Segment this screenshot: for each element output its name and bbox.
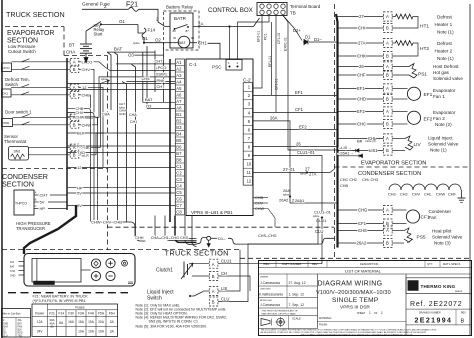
svg-text:SN1: SN1 [14,150,21,154]
svg-text:CH1: CH1 [161,236,169,240]
svg-text:B: B [386,26,389,31]
svg-text:B: B [73,67,76,72]
connector C-1 pin boxes A1-C8 [175,59,184,215]
svg-text:HP: HP [77,185,83,190]
svg-text:F30: F30 [68,311,74,315]
svg-text:splice: splice [133,41,140,45]
wire CHS right [338,230,384,232]
svg-text:1: 1 [369,311,371,315]
svg-text:BT: BT [69,43,75,48]
svg-text:2E21994: 2E21994 [415,318,453,325]
svg-text:BAT: BAT [179,41,187,45]
svg-text:12A: 12A [37,320,44,324]
svg-text:MAT'L SPECS: MAT'L SPECS [443,262,460,266]
svg-text:B: B [386,221,389,226]
svg-text:CHF: CHF [448,193,456,197]
wire DSW1 to connector [22,116,71,118]
svg-text:SECTION: SECTION [2,180,34,189]
svg-text:B: B [212,300,215,305]
transducer pin B wire 5V [34,201,39,203]
svg-text:DK1: DK1 [3,92,9,96]
wire 2 left segment [82,8,129,10]
svg-text:Switch: Switch [147,296,162,302]
vertical wire x126.4 [122,82,126,223]
wire BLK to C-1 [67,132,175,134]
PSC pin2 wire up [238,16,270,60]
wire 12 label [79,86,81,88]
svg-text:2A: 2A [198,21,203,26]
wire CLU from LIS [218,218,318,302]
svg-text:30: 30 [173,36,177,40]
svg-text:12: 12 [247,179,252,184]
svg-text:F4H: F4H [88,311,95,315]
wire CHB label [79,94,81,96]
svg-text:CHS–CHG: CHS–CHG [258,234,277,238]
svg-text:BRAZIL: BRAZIL [455,290,463,293]
svg-text:1. Sep. 12: 1. Sep. 12 [289,293,305,297]
fan CF1 circle [406,210,419,223]
svg-text:CLU: CLU [221,296,229,301]
svg-text:26A: 26A [283,188,290,193]
svg-text:CH1: CH1 [130,120,137,124]
svg-text:EF2: EF2 [299,124,307,129]
wire EF2-01 down [253,16,263,89]
svg-text:5V: 5V [77,191,82,196]
svg-text:CHT: CHT [40,193,49,198]
left bus vertical [66,58,68,210]
wire CHB row2 [67,108,91,222]
title block right grid [406,292,472,294]
svg-text:THIS PRINT SUPERSEDES ANY: THIS PRINT SUPERSEDES ANY OF [262,310,299,313]
relay BAT coil [178,36,190,48]
svg-text:EXR1-01: EXR1-01 [284,37,288,51]
svg-text:CHA: CHA [102,112,110,116]
svg-text:B: B [461,318,465,324]
control box outline [186,59,253,216]
wire 2A [193,18,260,27]
key relay start switch [86,22,101,32]
wire CHB C-2 area [253,197,269,199]
svg-text:B: B [386,73,389,78]
svg-text:B: B [386,148,389,153]
svg-text:CHI: CHI [358,26,365,31]
svg-text:Wire in Cab Box: Wire in Cab Box [2,313,21,316]
splice node O1/O2/O3 [143,38,145,43]
svg-text:CF1: CF1 [358,221,367,226]
svg-text:CHT: CHT [157,84,166,89]
svg-text:A3: A3 [176,73,182,78]
wire BAT top [107,51,155,53]
vertical wire BAT x142.8 [142,52,144,102]
relay switch contact [175,25,188,30]
wires CHH CHA CH1 CHG CHS drops [155,216,197,239]
svg-text:B: B [73,93,76,98]
wire LIS stub [203,290,209,292]
svg-text:CHW: CHW [76,115,85,119]
svg-text:CH: CH [221,271,227,276]
battery pack terminal 2 [106,259,115,268]
heavy bus x170 [169,59,171,222]
svg-text:(5): (5) [50,325,53,329]
svg-text:CHA: CHA [10,270,15,273]
wire RXD to C-1 [67,145,175,147]
diode D1 [303,40,308,45]
thermo king logo box [406,278,472,294]
wire CHT to C-1 [67,88,175,90]
switch LIS symbol [190,292,203,297]
svg-text:J.Carrascosa: J.Carrascosa [260,303,280,307]
svg-text:10: 10 [247,162,252,167]
right heavy bus [336,14,338,248]
svg-text:A1: A1 [176,60,182,65]
svg-text:EF2: EF2 [357,109,365,114]
title block frame and header rows [259,261,472,336]
svg-text:F21: F21 [10,261,15,264]
svg-text:RXD: RXD [18,333,23,335]
wire CHW C-2 area [253,209,276,228]
svg-text:A: A [73,60,76,65]
svg-text:Switch: Switch [5,82,18,87]
svg-text:Note (1): Note (1) [437,56,454,61]
svg-text:CH1: CH1 [198,41,207,46]
wire PNK to C-1 [67,82,175,84]
svg-text:CHK: CHK [357,54,366,59]
PSC pin1 wire up [229,27,231,60]
evaporator section boundary top [5,26,64,28]
projection circle symbol [277,318,285,326]
svg-text:LIV: LIV [414,142,422,148]
svg-text:30A: 30A [18,319,23,322]
svg-text:Defrost: Defrost [437,41,453,46]
condenser/evap divider left [2,168,108,170]
svg-text:A: A [35,191,37,195]
transducer THPCO box [14,190,34,215]
svg-text:24V: 24V [37,330,44,334]
svg-text:D2+: D2+ [293,28,301,33]
svg-text:CHW: CHW [82,122,92,127]
svg-text:Start: Start [94,31,104,36]
svg-text:EF1: EF1 [424,92,433,98]
svg-text:Defrost: Defrost [437,15,453,20]
svg-text:B: B [73,153,76,158]
svg-text:ITEM: ITEM [263,262,270,266]
svg-text:B: B [212,274,215,279]
wire CLU1 clutch [192,263,209,265]
svg-text:A7: A7 [176,99,182,104]
svg-text:CH7: CH7 [119,102,125,106]
truck section bottom boundary left [2,249,240,251]
connector A LPCO [70,59,79,66]
svg-text:CHV: CHV [82,67,91,72]
svg-text:LIST OF MATERIAL: LIST OF MATERIAL [345,269,382,274]
svg-text:CLU1–01: CLU1–01 [297,150,315,155]
svg-text:BLK: BLK [18,330,23,332]
svg-text:9V: 9V [77,203,82,208]
svg-text:Evaporator: Evaporator [433,110,456,115]
svg-text:A: A [386,14,389,19]
svg-text:A6: A6 [176,92,182,97]
svg-text:Thermostat: Thermostat [4,139,27,144]
PSC box [226,60,242,71]
wire EF2 right [338,111,384,113]
svg-text:CHC: CHC [357,122,366,127]
wire DSW1 label [79,116,81,118]
wire D1- to bus [309,41,338,43]
svg-text:Fan: Fan [429,215,437,220]
svg-text:PART NUMBER: PART NUMBER [282,262,301,266]
svg-text:26A1: 26A1 [295,198,305,203]
svg-text:A: A [386,64,389,69]
svg-text:Clutch1: Clutch1 [156,268,173,274]
svg-text:PSC: PSC [212,65,222,70]
fuse F14 symbol [142,28,146,38]
svg-text:CH2: CH2 [400,193,408,197]
svg-text:Battery Relay: Battery Relay [166,5,194,10]
battery down arrow to chassis [84,53,88,62]
wire CHI right [338,27,384,29]
svg-text:CHA: CHA [66,50,75,55]
battery pack lead wires [19,261,25,263]
battery pack terminal 3 [122,260,128,266]
fan EF1 circle [407,87,420,100]
svg-text:26: 26 [359,64,364,69]
svg-text:EF1: EF1 [357,86,365,91]
wire CHC right [338,123,384,125]
svg-text:F21: NEAR BATTERY, IN TRUC: F21: NEAR BATTERY, IN TRUCK [33,295,89,299]
wire CF1 from C-2 pin4 [253,111,338,113]
wire CF1 right [338,223,384,225]
condenser coil loops [389,184,401,190]
svg-text:F3H: F3H [78,311,85,315]
svg-text:D1–: D1– [314,37,322,42]
clutch1 symbol [183,262,185,278]
svg-text:Terminal Board: Terminal Board [290,4,321,9]
svg-text:PNK: PNK [157,78,166,83]
svg-text:CHECKED: CHECKED [260,288,271,290]
svg-text:BATR: BATR [174,16,187,21]
svg-text:CF1-02: CF1-02 [277,33,281,44]
wire O3 top [131,54,164,56]
svg-text:B: B [35,198,37,202]
wire CLU vertical [321,218,323,264]
wire TXD to C-1 [67,152,175,154]
connectors A/B right column [384,12,393,21]
wire 27 right [338,16,384,18]
wire O3 to C-1 [147,108,175,110]
svg-text:CHB: CHB [340,184,348,188]
svg-text:B4: B4 [176,131,182,136]
wire 12 to connector [21,86,70,88]
svg-text:16A: 16A [68,320,75,324]
wire CH1 drop to control box [208,43,221,59]
svg-text:BAT: BAT [10,266,15,269]
svg-text:CHL: CHL [424,193,432,197]
svg-text:27A: 27A [309,171,317,176]
wire 27-01 from C-2 pin11 [253,169,335,172]
wire 12 to C-1 [67,167,175,169]
heater HT2 resistor [392,42,394,44]
svg-text:CHC CH2: CHC CH2 [340,178,357,182]
transducer pin C wire HP [34,208,39,210]
svg-text:Fan 1: Fan 1 [433,94,445,99]
switch LPCO contacts [12,59,30,70]
wire 26A1 stub right [338,155,357,157]
svg-text:CH5: CH5 [142,76,151,81]
control box right dashed boundary [334,4,336,258]
valve PS1 wires [392,66,409,68]
svg-text:BAT: BAT [145,97,153,102]
svg-text:CH7: CH7 [155,59,164,64]
svg-text:GND: GND [119,112,127,116]
sensor SN1 body [9,147,29,161]
svg-text:Fuses: Fuses [75,305,85,309]
svg-text:DRAWING NUMBER: DRAWING NUMBER [419,312,441,315]
svg-text:LIS: LIS [221,286,227,291]
svg-text:EVAPORATOR: EVAPORATOR [7,30,54,37]
svg-text:Heater 2: Heater 2 [435,49,453,54]
valve LIV symbol [405,136,413,150]
svg-text:CHV: CHV [412,193,420,197]
connector A DK1 [70,84,79,91]
svg-text:C3: C3 [176,177,182,182]
wire 26 from C-2 pin8 [253,146,338,148]
switch DK1 body [2,89,12,97]
svg-text:27. Aug. 12: 27. Aug. 12 [289,281,306,285]
svg-text:C5: C5 [176,190,182,195]
svg-text:PS1: PS1 [418,72,427,78]
truck section bottom boundary right [108,226,335,228]
battery relay dashed enclosure [164,11,200,50]
wire CH clutch [192,275,209,277]
wire LIS label [218,250,240,291]
svg-text:Hot gas: Hot gas [433,70,450,75]
wire CHV row2 [67,113,94,223]
wire PNK label [79,146,81,148]
svg-text:LIS1: LIS1 [369,148,378,153]
svg-text:Note (5): 30A FOR V100, 4: Note (5): 30A FOR V100, 40A FOR V200/300… [136,325,207,329]
vertical wire CHA x111 [107,52,111,110]
wire CHL right [338,138,384,140]
svg-text:TB: TB [290,11,296,16]
svg-text:CHG: CHG [171,236,179,240]
svg-text:A: A [386,228,389,233]
battery BT symbol [85,31,87,44]
svg-text:REV.: REV. [312,262,318,266]
svg-text:CHA: CHA [3,325,8,328]
border left [1,0,3,338]
fan EF1 wires [392,88,407,90]
wire 26A from C-2 pin5 [253,121,291,196]
svg-text:26A: 26A [270,116,278,121]
svg-text:C: C [35,204,37,208]
svg-text:A: A [386,86,389,91]
heavy cable to battery pack [24,205,76,254]
svg-text:PNK: PNK [18,326,23,328]
connector A DSW1 [70,114,79,121]
svg-text:C6: C6 [176,196,182,201]
svg-text:O1: O1 [142,36,148,41]
svg-text:CF1: CF1 [295,107,304,112]
svg-text:C4: C4 [176,183,182,188]
svg-text:RXD: RXD [77,144,86,149]
svg-text:27A: 27A [358,41,366,46]
svg-text:10A: 10A [78,330,85,334]
svg-text:26: 26 [296,141,301,146]
wire D2+ [283,16,302,41]
svg-text:splice: splice [101,78,108,81]
svg-text:O2: O2 [155,38,161,43]
svg-text:OF: OF [374,312,378,315]
battery pack small marks [128,281,133,283]
svg-text:SN2 (B), INPUTS IN CONN.: SN2 (B), INPUTS IN CONN. C1 [149,320,198,324]
svg-text:27: 27 [359,14,364,19]
svg-text:Note (3): Note (3) [434,241,451,246]
svg-text:Solenoid valve: Solenoid valve [433,76,463,81]
fuse table grid [32,304,118,337]
svg-text:C-1: C-1 [189,62,197,68]
svg-text:CHB: CHB [255,196,263,200]
svg-text:5V: 5V [40,200,45,205]
svg-text:O3: O3 [128,53,134,58]
svg-text:TXD: TXD [18,336,23,338]
svg-text:A: A [386,136,389,141]
wire D1- snake run [197,237,207,243]
svg-text:A: A [386,208,389,213]
svg-text:PS5: PS5 [417,235,426,241]
wire CH label [218,276,250,291]
svg-text:EF1-01: EF1-01 [268,56,272,67]
svg-text:Power: Power [35,311,45,315]
wire CHF right [338,74,384,76]
svg-text:MATERIAL:: MATERIAL: [319,317,332,320]
battery pack mid link [81,269,91,271]
wire O2 to coil [164,42,179,44]
svg-text:A2: A2 [176,66,182,71]
svg-text:–LIS→: –LIS→ [339,145,351,150]
wire LPCO to connector [22,61,71,63]
splice PNK arrow [101,80,110,84]
wire CH5 to C-1 [126,81,175,83]
svg-text:SINGLE TEMP: SINGLE TEMP [332,297,379,304]
svg-text:26A2: 26A2 [357,241,367,246]
svg-text:Door switch 1: Door switch 1 [5,110,32,115]
svg-text:CLU1–01: CLU1–01 [314,209,332,214]
svg-text:GND: GND [3,323,8,325]
svg-text:BAT: BAT [114,47,123,52]
wire CLU1 label [218,263,322,265]
vertical wire CHA2 x135.4 [131,64,135,226]
svg-text:CHL CH3: CHL CH3 [362,178,378,182]
wire CH1 from coil [190,42,197,44]
svg-text:DRAWN: DRAWN [260,275,269,278]
svg-text:Evaporator: Evaporator [433,88,456,93]
valve PS5 wires [392,230,404,232]
svg-text:CHW: CHW [255,207,264,211]
valve LIV wires [392,138,405,140]
svg-text:DSW1: DSW1 [2,121,10,125]
title block top dashed [240,257,470,259]
svg-text:F6H: F6H [109,311,116,315]
svg-text:B: B [386,54,389,59]
svg-text:Cutout Switch: Cutout Switch [8,49,36,54]
wire EXR1-01 down [283,16,338,151]
svg-text:DG: DG [409,284,418,290]
svg-text:87: 87 [186,29,190,33]
svg-text:HT1: HT1 [420,24,429,30]
svg-text:10A: 10A [98,330,105,334]
svg-text:V100/V–200/300/MAX–10/30: V100/V–200/300/MAX–10/30 [316,290,391,296]
connector B DSW1 [70,122,79,129]
